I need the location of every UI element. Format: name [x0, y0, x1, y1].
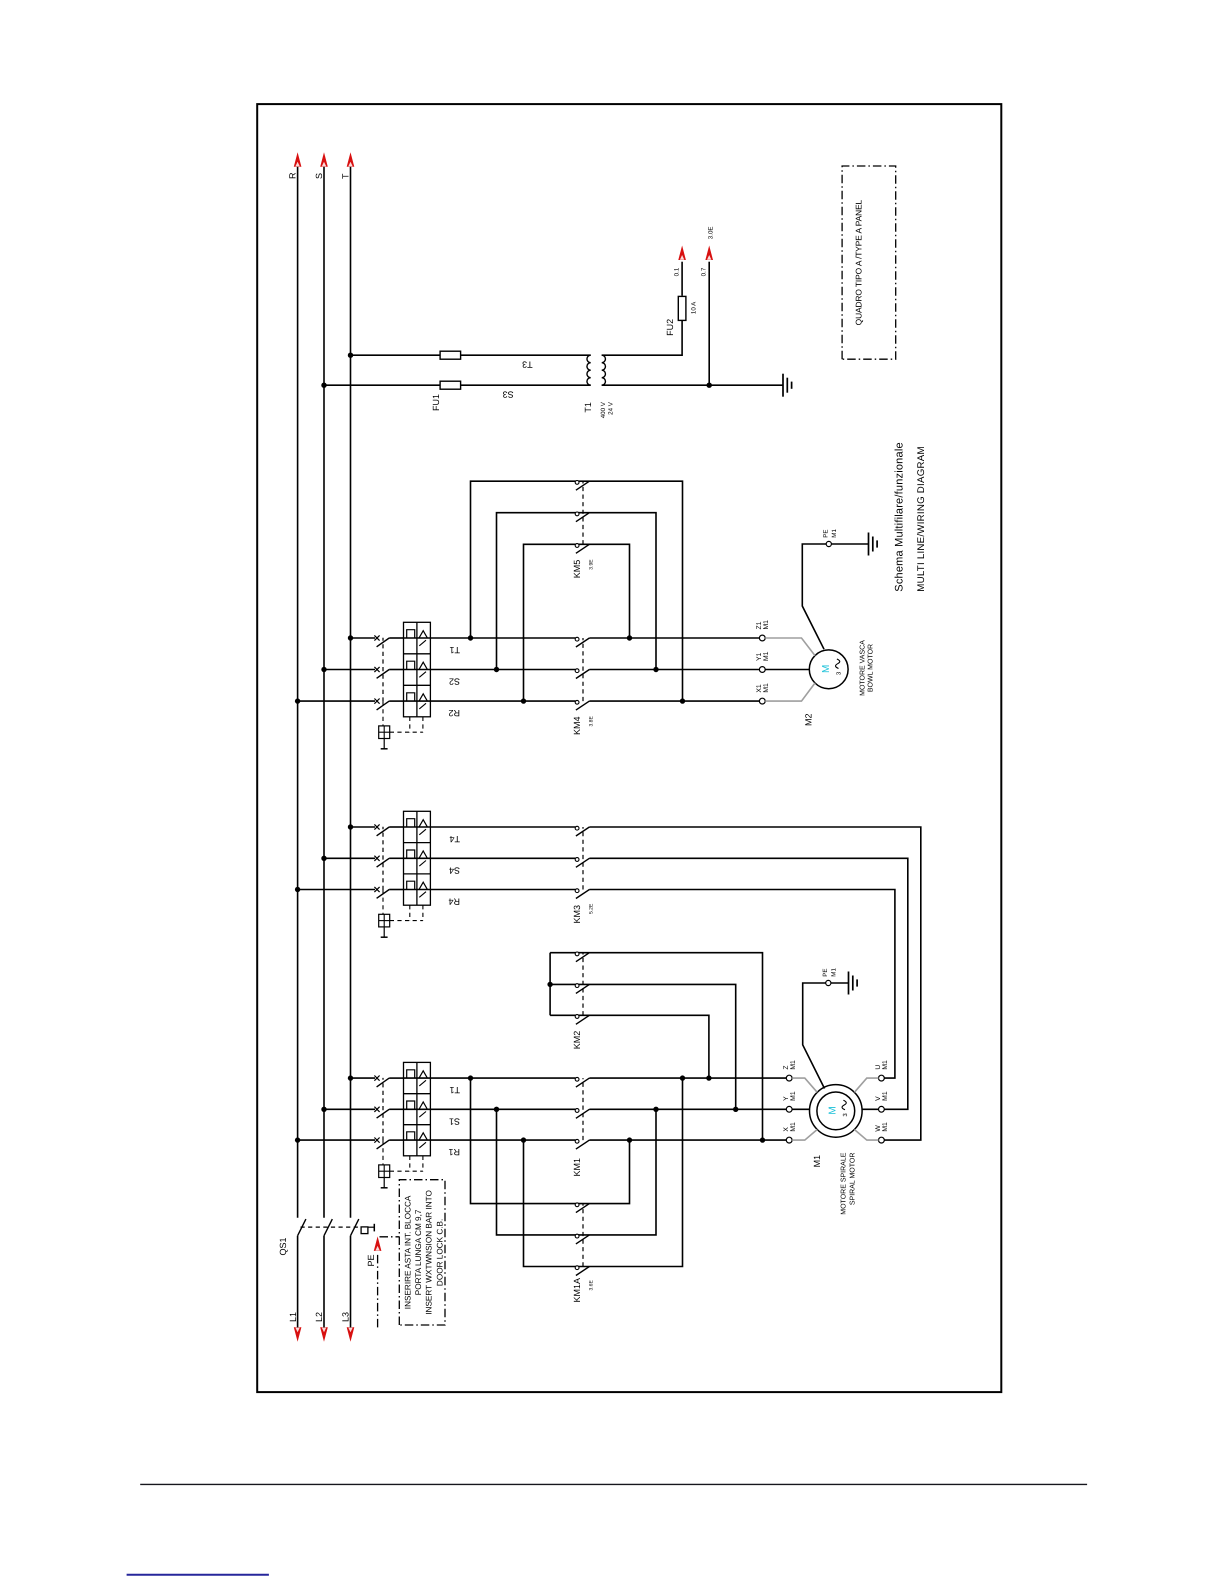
KM5 junction dots on phase wires [468, 635, 685, 704]
wire R1 through block to motor [430, 1139, 786, 1141]
svg-text:M1: M1 [763, 620, 770, 630]
svg-text:M1: M1 [831, 968, 838, 977]
contactor KM3 main contacts [575, 826, 589, 898]
wire T1 to motor M2 [430, 637, 760, 639]
svg-text:S2: S2 [449, 677, 460, 687]
wire number label T1 [449, 1085, 460, 1095]
motor M2 (bowl motor) [809, 650, 848, 689]
motor protection breaker for M2: switch contacts [374, 635, 389, 710]
contactor KM2 star bridge [547, 953, 762, 1140]
svg-text:QUADRO TIPO A /TYPE A PANEL: QUADRO TIPO A /TYPE A PANEL [854, 199, 864, 325]
fuse FU1 pole a [440, 351, 461, 359]
QS1 door-interlock key symbol [361, 1224, 374, 1234]
KM1A junction dots on phase wires [468, 1075, 685, 1142]
svg-text:S3: S3 [503, 390, 514, 400]
svg-text:Y1: Y1 [756, 652, 763, 661]
svg-text:M1: M1 [790, 1122, 797, 1132]
svg-text:S1: S1 [449, 1116, 460, 1126]
svg-text:KM1: KM1 [572, 1158, 582, 1177]
svg-text:W: W [875, 1125, 882, 1132]
svg-text:T3: T3 [522, 360, 533, 370]
wire 0.7 arrow [705, 246, 713, 261]
contactor KM1A main contacts [575, 1203, 589, 1276]
label L1 [288, 1312, 298, 1322]
svg-text:3.8E: 3.8E [589, 716, 595, 727]
svg-text:T: T [340, 173, 350, 179]
wire tap from bus at x=883 [295, 698, 375, 703]
label FU1 [431, 394, 441, 411]
svg-text:T1: T1 [449, 1085, 460, 1095]
PE entry (dash-dot) with arrow [374, 1236, 400, 1327]
M1 terminal Y [783, 1091, 810, 1112]
svg-text:S4: S4 [449, 865, 460, 875]
for M1 trip unit linkage [379, 1141, 423, 1188]
svg-text:PORTA LUNGA CM 9,7: PORTA LUNGA CM 9,7 [414, 1209, 423, 1295]
transformer T1 400V/24V [587, 355, 606, 385]
bus arrow S [320, 152, 328, 167]
svg-text:T4: T4 [449, 834, 460, 844]
svg-text:MULTI LINE/WIRING DIAGRAM: MULTI LINE/WIRING DIAGRAM [916, 446, 927, 591]
label T [340, 173, 350, 179]
wire number label R1 [448, 1147, 460, 1157]
svg-text:DOOR LOCK C.B.: DOOR LOCK C.B. [435, 1219, 444, 1286]
M2 PE terminal label [823, 529, 839, 538]
wire L2 to QS1 [323, 1236, 325, 1328]
wire number label T1 [449, 645, 460, 655]
M1 PE conductor [803, 980, 849, 1088]
wire tap from bus at x=914 [321, 667, 375, 672]
panel marking box QUADRO TIPO A [842, 166, 896, 359]
M1 terminal X [783, 1122, 817, 1143]
secondary wire to FU2 [602, 262, 682, 356]
svg-text:MOTORE VASCA: MOTORE VASCA [860, 640, 867, 696]
svg-text:3.6E: 3.6E [589, 1280, 595, 1291]
svg-text:X: X [783, 1127, 790, 1132]
bus S [323, 167, 325, 1218]
label L3 [341, 1312, 351, 1322]
svg-text:M1: M1 [882, 1091, 889, 1101]
wire number label T3 [522, 360, 533, 370]
wire number label S3 [503, 390, 514, 400]
wire number label S4 [449, 865, 460, 875]
coil cross-reference 3.9E [589, 559, 595, 570]
tap S3 from bus S [321, 382, 440, 387]
svg-text:Schema Multifilare/funzionale: Schema Multifilare/funzionale [894, 442, 906, 591]
wire T1 through block to motor [430, 1077, 786, 1079]
cross reference 3.0E [708, 226, 715, 239]
svg-text:QS1: QS1 [278, 1237, 288, 1255]
for M2 thermal-magnetic block [389, 622, 430, 717]
KM2 junction dots on phase wires [706, 1075, 765, 1142]
svg-text:T1: T1 [449, 645, 460, 655]
svg-text:3.9E: 3.9E [589, 559, 595, 570]
M1 terminal Z [783, 1060, 817, 1092]
footer link line [127, 1574, 269, 1576]
for M1 thermal-magnetic block [389, 1062, 430, 1155]
coil cross-reference 5.2E [589, 903, 595, 914]
svg-text:MOTORE SPIRALE: MOTORE SPIRALE [840, 1152, 847, 1214]
fuse FU2 10A [678, 296, 686, 320]
wire R4 [430, 890, 895, 1079]
svg-text:KM4: KM4 [572, 716, 582, 735]
wire L1 to QS1 [297, 1236, 299, 1328]
svg-text:M: M [828, 1106, 839, 1114]
for M2 trip unit linkage [379, 702, 423, 749]
M1 terminal U [854, 1060, 889, 1092]
earth symbol at M2 PE [869, 533, 878, 556]
label 10 A [690, 301, 697, 314]
svg-text:M2: M2 [803, 713, 813, 726]
contactor KM2 main contacts [575, 952, 589, 1024]
wire S1 through block to motor [430, 1108, 786, 1110]
M2 terminal Z1 [756, 620, 815, 656]
earth symbol at transformer secondary [783, 374, 792, 397]
contactor KM5 reversing loops [471, 481, 683, 701]
svg-text:KM2: KM2 [572, 1031, 582, 1050]
svg-text:10 A: 10 A [690, 301, 697, 314]
svg-text:L2: L2 [314, 1312, 324, 1322]
for M1 second winding trip unit linkage [379, 890, 423, 937]
M2 terminal X1 [756, 683, 815, 704]
wire tap from bus at x=444 [295, 1137, 375, 1142]
transformer labels [583, 401, 614, 418]
label FU2 [665, 319, 675, 336]
svg-text:M1: M1 [831, 529, 838, 538]
wire tap from bus at x=946 [348, 635, 375, 640]
svg-text:R4: R4 [448, 897, 460, 907]
label KM1A [572, 1278, 582, 1303]
fuse FU1 pole b [440, 381, 461, 389]
motor protection breaker for M1: switch contacts [374, 1076, 389, 1149]
contactor KM4 main contacts [575, 637, 589, 710]
bus R [297, 167, 299, 1218]
coil cross-reference 3.6E [589, 1280, 595, 1291]
wire number label S2 [449, 677, 460, 687]
M2 terminal Y1 [756, 651, 809, 672]
drawing title [894, 442, 928, 591]
secondary return wire 0.7 [602, 262, 783, 388]
label KM4 [572, 716, 582, 735]
earth symbol at M1 PE [849, 972, 858, 995]
svg-text:INSERIRE ASTA INT. BLOCCA: INSERIRE ASTA INT. BLOCCA [403, 1195, 412, 1309]
M1 name text [840, 1152, 856, 1214]
wire tap from bus at x=506 [348, 1075, 375, 1080]
svg-text:0.1: 0.1 [673, 267, 680, 276]
supply arrow L1 [294, 1327, 302, 1342]
label KM1 [572, 1158, 582, 1177]
svg-text:U: U [875, 1065, 882, 1070]
svg-text:R1: R1 [448, 1147, 460, 1157]
svg-text:Y: Y [783, 1096, 790, 1101]
bus arrow T [347, 152, 355, 167]
svg-text:0.7: 0.7 [700, 267, 707, 276]
wire tap from bus at x=757 [348, 824, 375, 829]
svg-text:INSERT WXTWNSION BAR INTO: INSERT WXTWNSION BAR INTO [425, 1190, 434, 1315]
wire T4 [430, 827, 920, 1140]
interlock note box [399, 1180, 445, 1325]
M2 PE conductor [802, 541, 868, 649]
wire 0.1 arrow [678, 246, 686, 261]
svg-text:24 V: 24 V [608, 401, 615, 415]
svg-text:M1: M1 [812, 1155, 822, 1168]
footer rule [140, 1483, 1087, 1485]
wire S3 to transformer [461, 384, 591, 386]
wire number label S1 [449, 1116, 460, 1126]
coil cross-reference 3.8E [589, 716, 595, 727]
label KM5 [572, 560, 582, 579]
svg-text:M1: M1 [763, 683, 770, 693]
wire tap from bus at x=694 [295, 887, 375, 892]
svg-text:V: V [875, 1096, 882, 1101]
svg-text:L3: L3 [341, 1312, 351, 1322]
M1 terminal V [862, 1091, 889, 1112]
svg-text:KM5: KM5 [572, 560, 582, 579]
svg-text:PE: PE [822, 968, 829, 976]
contactor KM1 main contacts [575, 1077, 589, 1149]
wire number label R2 [448, 708, 460, 718]
svg-text:Z: Z [783, 1065, 790, 1069]
svg-text:M1: M1 [790, 1060, 797, 1070]
supply arrow L2 [320, 1327, 328, 1342]
wire S4 [430, 858, 907, 1109]
label S [314, 173, 324, 179]
svg-text:T1: T1 [583, 402, 593, 413]
for M1 second winding thermal-magnetic block [389, 811, 430, 905]
svg-text:3.0E: 3.0E [708, 226, 715, 239]
label KM3 [572, 905, 582, 924]
svg-text:PE: PE [823, 529, 830, 537]
wire R2 to motor M2 [430, 700, 760, 702]
svg-text:PE: PE [366, 1254, 376, 1266]
svg-text:SPIRAL MOTOR: SPIRAL MOTOR [850, 1153, 857, 1206]
svg-text:FU1: FU1 [431, 394, 441, 411]
M1 terminal W [854, 1122, 889, 1143]
main switch QS1 [298, 1219, 361, 1236]
label M2 [803, 713, 813, 726]
label R [288, 172, 298, 179]
M1 PE terminal label [822, 968, 838, 977]
contactor KM1A reversing loops [471, 1078, 683, 1266]
svg-text:Z1: Z1 [756, 621, 763, 629]
wire L3 to QS1 [350, 1236, 352, 1328]
svg-text:M1: M1 [763, 651, 770, 661]
svg-text:M: M [821, 665, 832, 673]
label 0.1 [673, 267, 680, 276]
svg-text:KM3: KM3 [572, 905, 582, 924]
svg-text:L1: L1 [288, 1312, 298, 1322]
motor protection breaker for M1 second winding: switch contacts [374, 824, 389, 898]
label PE [366, 1254, 376, 1266]
svg-text:R: R [288, 172, 298, 179]
svg-text:R2: R2 [448, 708, 460, 718]
svg-text:X1: X1 [756, 684, 763, 693]
contactor KM5 main contacts [575, 481, 589, 554]
svg-text:BOWL MOTOR: BOWL MOTOR [868, 644, 875, 692]
supply arrow L3 [347, 1327, 355, 1342]
label M1 [812, 1155, 822, 1168]
tap T3 from bus T [348, 352, 440, 357]
label 0.7 [700, 267, 707, 276]
wire number label T4 [449, 834, 460, 844]
svg-text:KM1A: KM1A [572, 1278, 582, 1303]
svg-text:FU2: FU2 [665, 319, 675, 336]
wire tap from bus at x=475 [321, 1107, 375, 1112]
wire T3 to transformer [461, 354, 591, 356]
svg-text:M1: M1 [882, 1060, 889, 1070]
border frame of drawing sheet [257, 104, 1001, 1392]
label L2 [314, 1312, 324, 1322]
bus T [350, 167, 352, 1218]
svg-text:5.2E: 5.2E [589, 903, 595, 914]
svg-text:M1: M1 [882, 1122, 889, 1132]
svg-text:M1: M1 [790, 1091, 797, 1101]
M2 name text [860, 640, 875, 696]
svg-text:S: S [314, 173, 324, 179]
wire number label R4 [448, 897, 460, 907]
motor M1 (spiral motor, two speed) [810, 1085, 863, 1138]
label QS1 [278, 1237, 288, 1255]
label KM2 [572, 1031, 582, 1050]
svg-text:400 V: 400 V [600, 401, 607, 418]
wire tap from bus at x=726 [321, 856, 375, 861]
wire S2 to motor M2 [430, 669, 760, 671]
bus arrow R [294, 152, 302, 167]
